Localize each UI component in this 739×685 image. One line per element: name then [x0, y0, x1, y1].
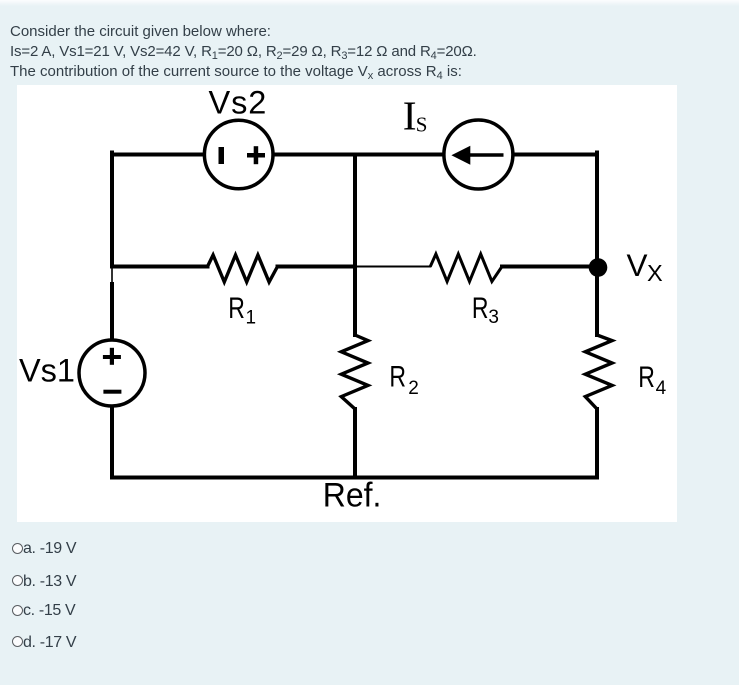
- svg-text:S: S: [416, 113, 428, 137]
- svg-text:Vs2: Vs2: [209, 85, 268, 121]
- svg-text:I: I: [403, 93, 417, 139]
- svg-text:R: R: [638, 360, 655, 393]
- svg-text:2: 2: [408, 378, 419, 399]
- svg-text:V: V: [627, 247, 648, 283]
- svg-text:3: 3: [488, 307, 499, 328]
- svg-text:X: X: [647, 260, 663, 286]
- svg-text:R: R: [228, 291, 245, 324]
- svg-text:4: 4: [656, 378, 667, 399]
- svg-text:Ref.: Ref.: [323, 476, 382, 514]
- svg-text:1: 1: [246, 308, 257, 329]
- svg-text:R: R: [472, 291, 489, 324]
- svg-text:Vs1: Vs1: [19, 353, 75, 389]
- svg-text:R: R: [389, 360, 406, 393]
